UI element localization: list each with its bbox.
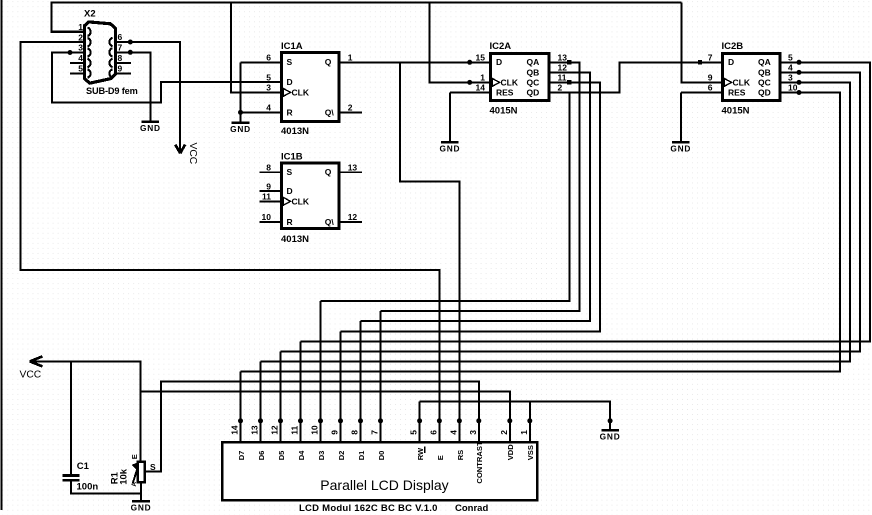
svg-text:2: 2 — [499, 430, 509, 435]
svg-text:IC1A: IC1A — [281, 41, 303, 52]
svg-text:9: 9 — [266, 181, 271, 191]
svg-text:3: 3 — [266, 82, 271, 92]
pin number 7 of LCD — [370, 430, 380, 435]
pin letter S of IC1B — [287, 167, 293, 177]
svg-text:RES: RES — [728, 88, 746, 98]
wire: VCC rail to R1 top — [30, 361, 141, 461]
junction on LCD D5 pin — [278, 418, 283, 423]
pin number 9 of IC1B — [266, 181, 271, 191]
svg-text:4: 4 — [788, 62, 793, 72]
pin number 10 of IC2B — [788, 83, 798, 93]
pin number 3 of IC1A — [266, 82, 271, 92]
pin letter CLK of IC1B — [292, 196, 310, 206]
wire: IC2A QB to LCD D1 — [361, 72, 590, 321]
wire: X2 pin9 stub — [116, 72, 132, 74]
wire: IC2B QA to LCD D4 — [301, 62, 870, 341]
pin number 5 of IC2B — [788, 52, 793, 62]
ground under IC2A — [439, 142, 460, 153]
svg-text:S: S — [287, 57, 293, 67]
junction on LCD D0 pin — [378, 418, 383, 423]
junction on LCD D6 pin — [258, 418, 263, 423]
wire: LCD D0 pin — [380, 311, 382, 441]
label S of R1 — [150, 462, 156, 472]
svg-text:QB: QB — [527, 67, 540, 77]
wire: LCD D7 pin — [240, 372, 242, 441]
pin letter D of IC1A — [287, 77, 293, 87]
svg-text:CLK: CLK — [292, 196, 310, 206]
pin name CONTRAST of LCD — [475, 441, 484, 484]
junction on X2 pin6 wire — [128, 40, 133, 45]
svg-text:GND: GND — [140, 123, 161, 133]
label 100n — [77, 481, 99, 492]
left sheet border — [1, 0, 3, 510]
wire: IC2B RES pin to ground — [681, 93, 722, 142]
ground near LCD — [600, 430, 621, 441]
svg-text:SUB-D9 fem: SUB-D9 fem — [86, 86, 138, 96]
wire: X2 pin3 loop to IC1A D — [52, 53, 283, 103]
svg-text:13: 13 — [348, 162, 358, 172]
square junction on IC2B D wire — [698, 60, 702, 64]
svg-text:Q\: Q\ — [325, 217, 335, 227]
svg-text:X2: X2 — [84, 8, 96, 19]
label 4013N of IC1A — [281, 126, 309, 137]
pin number 4 of X2 — [78, 53, 83, 63]
svg-text:5: 5 — [788, 52, 793, 62]
svg-text:4013N: 4013N — [281, 126, 309, 137]
svg-text:GND: GND — [670, 143, 691, 153]
pin number 10 of IC1B — [262, 212, 272, 222]
label LCD Modul 162C BC BC V.1.0 — [299, 503, 438, 514]
pin number 9 of IC2B — [708, 72, 713, 82]
svg-text:IC1B: IC1B — [281, 152, 303, 163]
wire: IC1A S pin — [241, 61, 284, 63]
pin name D2 of LCD — [337, 451, 346, 461]
svg-text:RS: RS — [456, 450, 465, 461]
svg-text:15: 15 — [476, 52, 486, 62]
wire: top rail drop to IC2B CLK — [682, 3, 723, 83]
pin name VDD of LCD — [506, 444, 515, 461]
pin number 5 of LCD — [409, 430, 419, 435]
op IC2B box — [723, 54, 781, 101]
svg-text:VDD: VDD — [506, 444, 515, 461]
svg-text:RES: RES — [496, 88, 514, 98]
svg-text:GND: GND — [230, 124, 251, 134]
svg-text:QD: QD — [758, 88, 771, 98]
pin name RW of LCD — [416, 446, 425, 460]
wire: IC1A Q branch to LCD RS — [400, 62, 460, 441]
svg-text:11: 11 — [262, 191, 271, 201]
svg-text:9: 9 — [330, 430, 340, 435]
pin letter QC of IC2B — [758, 77, 771, 87]
svg-text:1: 1 — [480, 72, 485, 82]
svg-text:14: 14 — [476, 83, 486, 93]
junction on LCD VDD pin — [507, 418, 512, 423]
svg-text:C1: C1 — [77, 461, 90, 472]
svg-text:9: 9 — [708, 72, 713, 82]
wire: LCD D1 pin — [360, 321, 362, 441]
svg-text:GND: GND — [439, 143, 460, 153]
svg-text:VCC: VCC — [187, 143, 198, 165]
wire: C1 bottom to ground rail — [71, 482, 141, 494]
svg-text:10k: 10k — [118, 468, 129, 485]
svg-text:D7: D7 — [237, 451, 246, 461]
pin letter RES of IC2B — [728, 88, 746, 98]
potentiometer R1 — [132, 462, 145, 483]
pin name D0 of LCD — [377, 451, 386, 461]
pin name D4 of LCD — [297, 450, 306, 460]
svg-text:4015N: 4015N — [722, 105, 750, 116]
pin letter R of IC1A — [287, 107, 293, 117]
pin letter CLK of IC2A — [501, 77, 519, 87]
svg-text:8: 8 — [350, 430, 360, 435]
wire: IC1B D stub — [260, 190, 284, 192]
junction on LCD D3 pin — [318, 418, 323, 423]
pin number 13 of IC2A — [558, 52, 568, 62]
junction on LCD E pin — [437, 418, 442, 423]
clock triangle IC2B — [724, 78, 731, 86]
svg-text:4: 4 — [266, 103, 271, 113]
wire: X2 pin1 to top rail — [52, 3, 682, 32]
pin letter CLK of IC1A — [292, 88, 310, 98]
pin number 11 of LCD — [290, 426, 300, 435]
pin letter RES of IC2A — [496, 88, 514, 98]
ground under IC1A R — [230, 123, 251, 134]
wire: top rail drop to IC1A CLK — [231, 3, 283, 93]
svg-text:2: 2 — [558, 83, 563, 93]
svg-text:6: 6 — [266, 52, 271, 62]
pin number 14 of IC2A — [476, 83, 486, 93]
pin letter D of IC2B — [728, 57, 734, 67]
pin number 6 of IC1A — [266, 52, 271, 62]
label R1 — [109, 471, 120, 484]
svg-text:D0: D0 — [377, 451, 386, 461]
pin number 2 of IC2A — [558, 83, 563, 93]
svg-text:1: 1 — [348, 52, 353, 62]
svg-text:10: 10 — [788, 83, 798, 93]
wire: X2 pin2 down and across to LCD E — [20, 42, 439, 441]
junction on X2 pin7 wire — [128, 50, 133, 55]
pin number 3 of X2 — [78, 43, 83, 53]
pin letter QC of IC2A — [527, 77, 540, 87]
svg-text:7: 7 — [708, 52, 713, 62]
pin letter QB of IC2A — [527, 67, 540, 77]
op IC1A box — [282, 53, 339, 122]
wire: X2 pin8 stub — [116, 62, 132, 64]
label C1 — [77, 461, 90, 472]
svg-text:D6: D6 — [257, 451, 266, 461]
pin name D7 of LCD — [237, 451, 246, 461]
pin number 8 of LCD — [350, 430, 360, 435]
pin number 15 of IC2A — [476, 52, 486, 62]
svg-text:CLK: CLK — [501, 77, 519, 87]
wire: LCD RW and VSS to ground — [420, 402, 610, 430]
svg-text:4: 4 — [448, 430, 458, 435]
svg-text:8: 8 — [266, 162, 271, 172]
display box — [222, 442, 537, 500]
wire: top rail drop to IC2A CLK — [430, 3, 490, 83]
wire: IC2B QB to LCD D5 — [281, 72, 861, 351]
svg-text:R: R — [287, 107, 293, 117]
pin letter D of IC1B — [287, 186, 293, 196]
pin name VSS of LCD — [526, 445, 535, 460]
pin letter QB of IC2B — [758, 67, 771, 77]
pin number 4 of LCD — [448, 430, 458, 435]
op IC1B box — [282, 163, 339, 229]
label 4015N of IC2A — [490, 105, 518, 116]
svg-text:QB: QB — [758, 67, 771, 77]
svg-text:VSS: VSS — [526, 445, 535, 460]
svg-text:12: 12 — [558, 62, 568, 72]
svg-text:3: 3 — [468, 430, 478, 435]
pin name D3 of LCD — [317, 451, 326, 461]
pin number 4 of IC1A — [266, 103, 271, 113]
label A of R1 — [131, 482, 138, 487]
pin number 9 of X2 — [118, 64, 123, 74]
svg-text:QC: QC — [527, 77, 540, 87]
pin number 6 of X2 — [118, 32, 123, 42]
svg-text:Q\: Q\ — [325, 107, 335, 117]
junction on LCD D2 pin — [338, 418, 343, 423]
clock triangle IC2A — [492, 78, 499, 86]
clock triangle IC1A — [283, 88, 290, 96]
svg-text:1: 1 — [519, 430, 529, 435]
wire: IC1A S-R tie — [240, 62, 242, 112]
square junction on IC2A QC — [567, 80, 571, 84]
svg-text:12: 12 — [270, 425, 280, 435]
wire: C1 top drop — [70, 361, 72, 474]
svg-text:RW: RW — [416, 447, 425, 460]
ground under R1 — [131, 501, 152, 512]
wire: LCD D2 pin — [340, 331, 342, 441]
svg-text:D: D — [287, 77, 293, 87]
svg-text:7: 7 — [370, 430, 380, 435]
pin name E of LCD — [436, 455, 445, 460]
wire: IC2A RES pin to ground — [450, 93, 490, 142]
wire: LCD VSS pin — [529, 402, 531, 441]
svg-text:13: 13 — [558, 52, 568, 62]
svg-text:13: 13 — [250, 425, 260, 435]
svg-text:4: 4 — [78, 53, 83, 63]
svg-text:E: E — [130, 454, 139, 459]
svg-text:CLK: CLK — [733, 77, 751, 87]
wire: IC2A QD to IC2B D — [549, 62, 722, 92]
svg-text:Q: Q — [325, 167, 332, 177]
pin letter S of IC1A — [287, 57, 293, 67]
svg-text:LCD Modul 162C BC BC V.1.0: LCD Modul 162C BC BC V.1.0 — [299, 503, 438, 514]
pin letter CLK of IC2B — [733, 77, 751, 87]
pin number 13 of IC1B — [348, 162, 358, 172]
pin number 6 of LCD — [428, 430, 438, 435]
svg-text:CLK: CLK — [292, 88, 310, 98]
pin letter R of IC1B — [287, 217, 293, 227]
pin number 1 of X2 — [78, 22, 83, 32]
pin name RS of LCD — [456, 450, 465, 461]
wire: IC1A Q to IC2A D — [339, 61, 490, 63]
svg-text:2: 2 — [78, 32, 83, 42]
pin number 1 of IC1A — [348, 52, 353, 62]
square junction on IC2A QA — [567, 60, 571, 64]
svg-text:QA: QA — [758, 57, 771, 67]
junction on IC2B QB — [797, 70, 802, 75]
connector X2 (SUB-D9 female) — [85, 22, 116, 83]
label IC2A — [490, 41, 512, 52]
svg-text:5: 5 — [409, 430, 419, 435]
svg-text:IC2A: IC2A — [490, 41, 512, 52]
pin number 7 of IC2B — [708, 52, 713, 62]
pin letter Q\ of IC1B — [325, 217, 335, 227]
pin letter QA of IC2A — [527, 57, 540, 67]
label 10k — [118, 468, 129, 485]
ground under IC2B — [670, 142, 691, 153]
pin name D1 of LCD — [357, 450, 366, 460]
svg-text:2: 2 — [348, 103, 353, 113]
svg-text:3: 3 — [788, 72, 793, 82]
svg-text:QA: QA — [527, 57, 540, 67]
svg-text:10: 10 — [310, 425, 320, 435]
label IC1B — [281, 152, 303, 163]
junction on IC2B QC — [797, 80, 802, 85]
svg-text:Q: Q — [325, 57, 332, 67]
svg-text:100n: 100n — [77, 481, 99, 492]
pin number 4 of IC2B — [788, 62, 793, 72]
pin number 1 of LCD — [519, 430, 529, 435]
svg-text:1: 1 — [78, 22, 83, 32]
pin number 3 of LCD — [468, 430, 478, 435]
svg-text:E: E — [436, 455, 445, 460]
wire: IC1B Q stub — [338, 171, 362, 173]
pin number 12 of LCD — [270, 425, 280, 435]
pin letter D of IC2A — [496, 57, 502, 67]
svg-text:D5: D5 — [277, 450, 286, 460]
wire: IC2A QD branch to LCD D3 — [321, 93, 570, 302]
label SUB-D9 fem — [86, 86, 138, 96]
pin number 5 of IC1A — [266, 72, 271, 82]
svg-text:8: 8 — [118, 53, 123, 63]
junction on IC1A Q wire — [467, 60, 472, 65]
pin letter QA of IC2B — [758, 57, 771, 67]
svg-text:D3: D3 — [317, 451, 326, 461]
svg-text:3: 3 — [78, 43, 83, 53]
svg-text:D: D — [728, 57, 734, 67]
pin number 12 of IC2A — [558, 62, 568, 72]
pin name D6 of LCD — [257, 451, 266, 461]
svg-text:D: D — [496, 57, 502, 67]
svg-text:Conrad: Conrad — [455, 503, 488, 514]
wire: IC1A Q\ stub — [339, 111, 362, 113]
pin name D5 of LCD — [277, 450, 286, 460]
junction on LCD VSS pin — [527, 418, 532, 423]
svg-text:QD: QD — [527, 88, 540, 98]
wire: X2 pin7 to ground — [116, 52, 151, 121]
pin number 1 of IC2A — [480, 72, 485, 82]
svg-text:14: 14 — [230, 425, 240, 435]
label 4013N of IC1B — [281, 234, 309, 245]
pin number 8 of X2 — [118, 53, 123, 63]
wire: IC2A QA to LCD D0 — [381, 62, 580, 311]
svg-text:6: 6 — [428, 430, 438, 435]
label X2 — [84, 8, 96, 19]
wire: IC1B CLK stub — [260, 200, 284, 202]
svg-text:GND: GND — [600, 432, 621, 442]
pin number 13 of LCD — [250, 425, 260, 435]
power VCC (down arrow) — [175, 143, 198, 165]
label E of R1 — [130, 454, 139, 459]
svg-text:S: S — [287, 167, 293, 177]
svg-text:9: 9 — [118, 64, 123, 74]
label Parallel LCD Display — [320, 477, 448, 493]
junction at IC1A R — [238, 110, 243, 115]
pin letter Q\ of IC1A — [325, 107, 335, 117]
svg-text:GND: GND — [131, 503, 152, 513]
svg-text:11: 11 — [290, 426, 300, 435]
junction on IC2B QA — [797, 60, 802, 65]
svg-text:5: 5 — [78, 64, 83, 74]
junction on ground drop — [608, 418, 613, 423]
junction on X2 pin3 wire — [68, 50, 73, 55]
label 4015N of IC2B — [722, 105, 750, 116]
wire: R1 wiper to LCD CONTRAST — [145, 381, 479, 471]
svg-text:4015N: 4015N — [490, 105, 518, 116]
power VCC (left arrow) — [20, 356, 43, 380]
junction on LCD D4 pin — [298, 418, 303, 423]
wire: IC1A R pin — [241, 111, 284, 113]
svg-text:D2: D2 — [337, 451, 346, 461]
ground under X2 — [140, 122, 161, 133]
pin letter Q of IC1B — [325, 167, 332, 177]
wire: IC2B QD to LCD D7 — [241, 93, 841, 372]
wire: LCD D3 pin — [320, 301, 322, 441]
op IC2A box — [491, 54, 550, 101]
pin letter QD of IC2B — [758, 88, 771, 98]
junction on LCD D7 pin — [238, 418, 243, 423]
pin number 2 of X2 — [78, 32, 83, 42]
wire: X2 pin6 to VCC symbol — [116, 42, 181, 152]
capacitor C1 — [62, 475, 79, 480]
pin number 14 of LCD — [230, 425, 240, 435]
junction on LCD CONTRAST pin — [476, 418, 481, 423]
junction on LCD RS pin — [457, 418, 462, 423]
svg-text:6: 6 — [118, 32, 123, 42]
label Conrad — [455, 503, 488, 514]
junction on IC2B QD — [797, 90, 802, 95]
svg-text:5: 5 — [266, 72, 271, 82]
svg-text:12: 12 — [348, 212, 358, 222]
pin number 10 of LCD — [310, 425, 320, 435]
svg-text:4013N: 4013N — [281, 234, 309, 245]
svg-text:CONTRAST: CONTRAST — [475, 441, 484, 484]
svg-text:Parallel LCD Display: Parallel LCD Display — [320, 477, 448, 493]
wire: IC1B Q\ stub — [338, 221, 362, 223]
pin number 6 of IC2B — [708, 83, 713, 93]
svg-text:6: 6 — [708, 83, 713, 93]
pin number 7 of X2 — [118, 43, 123, 53]
svg-text:7: 7 — [118, 43, 123, 53]
wire: X2 pin4 stub — [70, 62, 85, 64]
svg-text:IC2B: IC2B — [722, 41, 744, 52]
svg-text:A: A — [131, 482, 138, 487]
svg-text:R: R — [287, 217, 293, 227]
svg-text:10: 10 — [262, 212, 272, 222]
label IC1A — [281, 41, 303, 52]
pin number 9 of LCD — [330, 430, 340, 435]
junction on LCD D1 pin — [358, 418, 363, 423]
wire: IC2B QC to LCD D6 — [261, 82, 851, 361]
wire: IC2A QC to LCD D2 — [341, 82, 601, 331]
junction on LCD RW pin — [417, 418, 422, 423]
svg-text:D4: D4 — [297, 450, 306, 460]
pin number 5 of X2 — [78, 64, 83, 74]
svg-text:QC: QC — [758, 77, 771, 87]
